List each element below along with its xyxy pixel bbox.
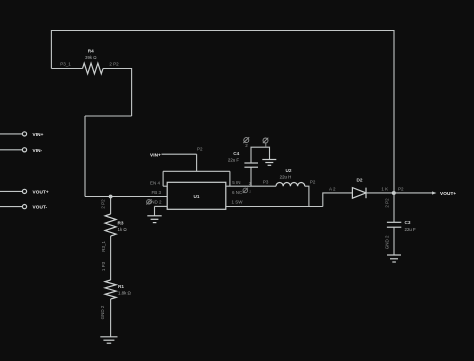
svg-text:1 P3: 1 P3 <box>101 261 106 271</box>
wire inductor out <box>305 186 309 206</box>
nc marker GND pin <box>146 199 151 204</box>
wire U1 GND stub <box>155 205 168 207</box>
svg-text:R4: R4 <box>88 48 94 53</box>
svg-text:U2: U2 <box>286 168 292 173</box>
wire right rail <box>393 30 395 222</box>
svg-text:P2: P2 <box>398 187 404 192</box>
svg-text:GND 2: GND 2 <box>385 235 390 249</box>
svg-text:VIN+: VIN+ <box>33 132 44 137</box>
wire horizontal jog <box>85 115 132 117</box>
wire divider bottom <box>110 299 112 337</box>
wire divider mid <box>110 236 112 280</box>
wire C3 to gnd <box>393 227 395 255</box>
svg-text:FB 3: FB 3 <box>151 190 161 195</box>
svg-text:1k Ω: 1k Ω <box>118 227 128 232</box>
svg-text:P3: P3 <box>263 179 269 184</box>
svg-text:A 2: A 2 <box>329 187 336 192</box>
svg-text:EN 4: EN 4 <box>150 181 161 186</box>
wire divider top <box>110 197 112 215</box>
wire R4 left <box>51 68 82 70</box>
svg-text:2 P2: 2 P2 <box>109 61 119 66</box>
wire R4 right <box>103 68 132 70</box>
wire C4 upper to gnd <box>251 147 270 163</box>
wire diode to rail <box>366 192 434 194</box>
svg-text:6 NC: 6 NC <box>232 190 243 195</box>
svg-text:U1: U1 <box>194 194 200 199</box>
svg-text:VOUT+: VOUT+ <box>440 191 456 196</box>
svg-text:2 P2: 2 P2 <box>101 199 106 209</box>
wire VIN+ drop <box>196 154 198 171</box>
wire IN leg <box>229 171 231 186</box>
svg-text:22u F: 22u F <box>228 158 240 163</box>
svg-text:C4: C4 <box>233 151 239 156</box>
wire IN net <box>226 185 276 187</box>
svg-text:R3_1: R3_1 <box>101 240 106 251</box>
node output junction <box>392 191 396 195</box>
wire feedback drop <box>84 116 86 197</box>
capacitor C4 <box>228 151 258 167</box>
diode D2 <box>352 178 366 199</box>
wire drop from R4 <box>131 68 133 116</box>
connector pin VIN- <box>0 148 43 153</box>
wire left drop to R4 <box>50 30 52 69</box>
wire VOUT arrow <box>432 191 437 194</box>
svg-text:VOUT+: VOUT+ <box>33 190 49 195</box>
wire FB net <box>85 196 167 198</box>
wire SW net <box>226 206 323 208</box>
node FB junction <box>109 195 113 199</box>
ground C4 <box>262 160 276 166</box>
svg-text:P3_1: P3_1 <box>60 61 71 66</box>
wire EN stub <box>163 185 167 187</box>
svg-text:R1: R1 <box>118 284 124 289</box>
svg-text:P2: P2 <box>197 147 203 152</box>
svg-text:C3: C3 <box>405 220 411 225</box>
wire top rail <box>51 30 394 32</box>
svg-text:1 K: 1 K <box>381 187 388 192</box>
ground U1 <box>147 216 161 223</box>
svg-text:VIN+: VIN+ <box>150 152 161 157</box>
wire EN leg <box>162 171 164 186</box>
svg-text:R3: R3 <box>118 221 124 226</box>
svg-text:GND 2: GND 2 <box>100 305 105 319</box>
resistor R3 <box>105 214 127 236</box>
svg-text:VOUT-: VOUT- <box>33 205 48 210</box>
svg-text:5 IN: 5 IN <box>232 180 240 185</box>
svg-text:1 SW: 1 SW <box>232 200 244 205</box>
IC U1 regulator <box>167 182 226 209</box>
svg-text:39k Ω: 39k Ω <box>85 55 97 60</box>
wire SW up to diode <box>323 193 353 207</box>
nc marker above gnd <box>263 138 269 147</box>
wire C4 lower <box>250 167 252 186</box>
svg-text:2 P2: 2 P2 <box>385 198 390 208</box>
resistor R4 <box>60 48 119 74</box>
capacitor C3 <box>387 220 416 232</box>
ground divider <box>100 337 117 343</box>
svg-text:2: 2 <box>249 190 251 194</box>
wire VIN+ stub <box>162 153 197 155</box>
svg-text:P2: P2 <box>310 179 316 184</box>
svg-text:22u F: 22u F <box>405 227 417 232</box>
svg-text:VIN-: VIN- <box>33 148 43 153</box>
svg-text:22u H: 22u H <box>280 175 292 180</box>
connector pin VOUT+ <box>0 189 49 194</box>
ground C3 <box>387 255 401 262</box>
wire GND drop <box>154 206 156 215</box>
connector pin VOUT- <box>0 205 48 210</box>
svg-text:D2: D2 <box>357 178 363 183</box>
resistor R1 <box>105 280 131 299</box>
connector pin VIN+ <box>0 132 44 137</box>
inductor U2 <box>263 168 316 186</box>
nc marker above C4 <box>243 137 249 143</box>
wire EN/IN bus top <box>163 170 230 172</box>
svg-text:1.8k Ω: 1.8k Ω <box>118 291 132 296</box>
nc marker NC pin <box>243 188 248 193</box>
